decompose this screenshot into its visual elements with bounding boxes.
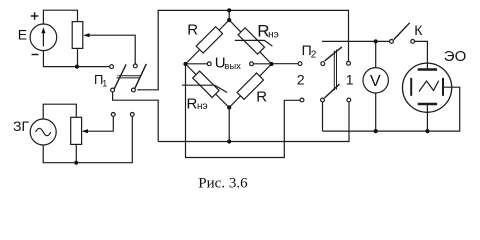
svg-text:1: 1 (102, 79, 107, 89)
svg-text:R: R (187, 95, 198, 112)
svg-text:ЗГ: ЗГ (13, 118, 29, 134)
svg-text:Рис. 3.6: Рис. 3.6 (198, 176, 248, 192)
svg-text:ЭО: ЭО (444, 48, 466, 65)
svg-text:V: V (370, 73, 381, 90)
svg-text:2: 2 (297, 72, 305, 88)
svg-text:R: R (187, 21, 198, 38)
svg-text:нэ: нэ (268, 29, 279, 40)
svg-text:вых: вых (224, 61, 241, 72)
svg-text:К: К (414, 22, 423, 38)
svg-text:нэ: нэ (197, 101, 208, 112)
svg-text:E: E (18, 27, 27, 43)
svg-text:2: 2 (311, 50, 317, 61)
svg-text:1: 1 (346, 72, 354, 88)
svg-text:R: R (256, 89, 267, 106)
